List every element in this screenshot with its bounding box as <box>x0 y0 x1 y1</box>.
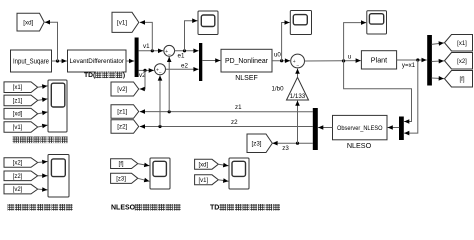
scope e1 (top) <box>198 11 218 35</box>
wire [x2] to scope g2 <box>38 160 48 165</box>
wire [z1] to scope g1 <box>38 97 48 102</box>
demux after Observer <box>313 108 318 150</box>
goto [z1] mid <box>111 105 139 119</box>
svg-text:1/b0: 1/b0 <box>271 86 284 93</box>
svg-text:[f]: [f] <box>119 162 124 168</box>
wire z2 branch to sum e2 <box>158 75 163 126</box>
svg-text:[xd]: [xd] <box>198 162 208 168</box>
svg-text:[v2]: [v2] <box>117 86 127 93</box>
svg-text:v1: v1 <box>143 43 150 50</box>
wire z3 <box>272 141 313 146</box>
from [x2] g2 <box>4 158 38 168</box>
wire [v2] to scope g2 <box>38 187 48 192</box>
sum e1 = v1 - z1 <box>164 45 175 58</box>
from [z3] g3 <box>111 173 138 183</box>
from [x1] g1 <box>4 82 38 93</box>
scope group4 <box>229 158 249 189</box>
sum u = u0 - z3/b0 <box>291 54 305 70</box>
scope u0 (top) <box>290 11 311 35</box>
svg-text:z2: z2 <box>231 119 238 126</box>
svg-text:e2: e2 <box>181 62 188 69</box>
gain 1/b0 = 1/133 <box>287 77 309 100</box>
svg-text:Plant: Plant <box>371 55 387 64</box>
wire u branch to scope <box>344 20 367 61</box>
svg-text:Observer_NLESO: Observer_NLESO <box>337 125 383 132</box>
wire [x1] to scope g1 <box>38 84 48 89</box>
svg-text:PD_Nonlinear: PD_Nonlinear <box>225 58 269 65</box>
wire demux to [f] right <box>432 76 444 81</box>
goto [x2] right <box>445 53 473 70</box>
svg-text:[x1]: [x1] <box>457 41 467 47</box>
block Plant <box>361 51 396 69</box>
wire sum u to Plant <box>305 58 361 63</box>
svg-text:[z2]: [z2] <box>117 124 127 131</box>
wire Input_Suqare to LevantDifferentiator <box>52 59 67 64</box>
wire z1 branch to sum e1 <box>167 57 172 112</box>
svg-text:+: + <box>293 59 296 65</box>
wire z2 <box>140 124 313 129</box>
wire u feedback to mux <box>344 61 412 124</box>
svg-text:e1: e1 <box>178 53 185 60</box>
svg-text:[z1]: [z1] <box>13 98 23 104</box>
block Input_Suqare <box>11 50 52 72</box>
caption 位移跟踪和观测效果 <box>13 137 68 144</box>
svg-text:[z1]: [z1] <box>117 109 127 116</box>
demux after TD <box>135 38 139 78</box>
from [v1] g1 <box>4 122 38 133</box>
wire [xd] to scope g1 <box>38 111 48 116</box>
wire [xd] to scope g4 <box>218 163 228 168</box>
mux before NLSEF <box>199 43 202 81</box>
svg-text:[x2]: [x2] <box>13 161 23 167</box>
wire e1 branch to scope <box>185 18 198 50</box>
goto [z3] <box>247 134 272 153</box>
svg-text:TD(: TD( <box>84 72 96 79</box>
scope group3 <box>150 158 170 189</box>
svg-text:[xd]: [xd] <box>23 19 33 26</box>
caption TD跟踪位移信号效果 <box>210 204 280 212</box>
wire u0 branch to scope <box>282 20 290 61</box>
wire demux to [x1] right <box>432 41 444 46</box>
svg-text:LevantDifferentiator: LevantDifferentiator <box>70 58 125 65</box>
svg-text:[xd]: [xd] <box>13 112 23 118</box>
wire e1 <box>175 49 199 54</box>
svg-text:[z3]: [z3] <box>116 176 126 182</box>
svg-text:NLESO: NLESO <box>347 141 372 150</box>
goto [v1] top <box>112 12 139 32</box>
wire PD_Nonlinear u0 to sum <box>272 58 290 63</box>
block Observer_NLESO <box>333 115 388 139</box>
wire [v1] to scope g4 <box>218 178 228 183</box>
svg-text:Input_Suqare: Input_Suqare <box>13 58 49 65</box>
scope u (top) <box>367 11 387 34</box>
wire y feedback to mux <box>404 60 418 135</box>
wire gain to sum u <box>295 69 300 78</box>
scope group1 <box>48 80 67 132</box>
wire [f] to scope g3 <box>138 163 150 168</box>
wire [z2] to scope g2 <box>38 173 48 178</box>
wire v2 <box>138 68 154 73</box>
svg-text:): ) <box>123 72 125 79</box>
wire mux to PD_Nonlinear <box>202 58 220 63</box>
mux before Observer <box>399 117 404 141</box>
svg-text:y=x1: y=x1 <box>402 62 416 69</box>
svg-text:TD: TD <box>210 205 219 212</box>
wire e2 <box>166 67 199 72</box>
from [v1] g4 <box>195 175 219 185</box>
block LevantDifferentiator TD <box>68 50 127 72</box>
from [z2] g2 <box>4 171 38 181</box>
svg-text:[x2]: [x2] <box>457 59 467 65</box>
svg-text:z3: z3 <box>282 145 289 152</box>
svg-text:u: u <box>348 53 352 60</box>
from [f] g3 <box>111 159 138 169</box>
wire Plant y=x1 to demux <box>397 58 427 63</box>
wire demux to [x2] right <box>432 59 444 64</box>
goto [f] right <box>445 71 473 88</box>
scope group2 <box>48 155 69 198</box>
wire v1 <box>138 49 163 54</box>
wire LevantDifferentiator to demux <box>126 59 134 64</box>
wire z3 branch to gain <box>295 101 300 144</box>
svg-text:1/133: 1/133 <box>290 93 306 100</box>
wire v1 branch to goto [v1] <box>140 20 153 51</box>
wire [z3] to scope g3 <box>138 178 150 183</box>
svg-text:[z3]: [z3] <box>252 140 262 147</box>
svg-text:NLESO: NLESO <box>111 205 136 212</box>
from [z1] g1 <box>4 95 38 106</box>
caption 速度跟踪和观测效果 <box>8 204 73 211</box>
goto [x1] right <box>445 35 473 52</box>
svg-text:[x1]: [x1] <box>13 85 23 91</box>
svg-text:z1: z1 <box>235 104 242 111</box>
svg-text:[v1]: [v1] <box>198 178 208 184</box>
svg-text:[v2]: [v2] <box>13 187 23 193</box>
wire [v1] to scope g1 <box>38 124 48 129</box>
goto [v2] mid <box>111 82 139 96</box>
goto [xd] top <box>17 13 44 31</box>
wire v2 branch to goto [v2] <box>140 70 145 91</box>
from [xd] g4 <box>195 159 219 169</box>
demux after Plant <box>427 35 432 86</box>
wire z1 <box>140 109 313 114</box>
svg-text:[v1]: [v1] <box>13 125 23 131</box>
caption TD(过渡过程) <box>84 72 125 79</box>
wire mux to Observer_NLESO <box>388 125 400 130</box>
caption NLESO观测扰动效果 <box>111 204 181 212</box>
sum e2 = v2 - z2 <box>155 64 166 77</box>
svg-text:[z2]: [z2] <box>13 174 23 180</box>
svg-text:[f]: [f] <box>459 77 464 83</box>
block PD_Nonlinear NLSEF <box>221 49 272 72</box>
svg-text:NLSEF: NLSEF <box>235 75 258 82</box>
wire branch to goto [xd] <box>45 20 58 61</box>
goto [z2] mid <box>111 120 139 134</box>
svg-text:[v1]: [v1] <box>117 20 127 27</box>
wire Observer_NLESO to demux <box>318 125 332 130</box>
from [xd] g1 <box>4 108 38 119</box>
from [v2] g2 <box>4 184 38 194</box>
svg-text:u0: u0 <box>274 52 281 59</box>
